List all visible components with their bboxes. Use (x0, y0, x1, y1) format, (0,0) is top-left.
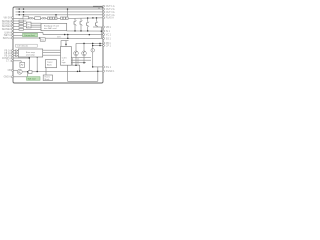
svg-text:IMON A: IMON A (3, 37, 12, 40)
svg-text:OUT 1 A: OUT 1 A (106, 5, 115, 8)
svg-text:FB 2A: FB 2A (4, 52, 11, 55)
svg-text:OUT 4 A: OUT 4 A (106, 14, 115, 17)
svg-text:Current limit: Current limit (24, 34, 35, 37)
svg-text:PG 1: PG 1 (106, 67, 112, 69)
svg-text:PGND 1: PGND 1 (106, 71, 115, 73)
svg-text:CB: CB (8, 70, 12, 72)
svg-text:IS 1: IS 1 (106, 31, 111, 33)
svg-text:Blank: Blank (47, 65, 52, 67)
svg-text:SENSE4: SENSE4 (2, 29, 12, 31)
svg-text:Shtdn: Shtdn (44, 78, 49, 81)
svg-text:and comp: and comp (26, 54, 36, 56)
svg-text:COMP A: COMP A (2, 57, 11, 60)
svg-text:ISET A: ISET A (4, 34, 12, 37)
svg-text:SS 1: SS 1 (106, 38, 112, 40)
svg-text:1 of 5 blocks: 1 of 5 blocks (17, 46, 28, 48)
svg-text:logic: logic (62, 62, 66, 64)
svg-text:CT 1: CT 1 (6, 61, 12, 63)
svg-text:trim DAC cntrl: trim DAC cntrl (44, 27, 57, 30)
svg-text:FLAG A: FLAG A (106, 17, 115, 20)
svg-text:VC 1: VC 1 (106, 35, 112, 37)
svg-text:SENSE1: SENSE1 (2, 21, 12, 23)
svg-text:OUT 2 A: OUT 2 A (106, 8, 115, 11)
svg-text:OUT 3 A: OUT 3 A (106, 11, 115, 14)
svg-text:Soft start: Soft start (28, 77, 36, 80)
svg-text:CP 1: CP 1 (106, 45, 112, 47)
svg-text:VB 1: VB 1 (106, 27, 112, 29)
svg-text:GND A: GND A (4, 76, 12, 79)
svg-text:VIN 5V: VIN 5V (4, 18, 12, 20)
svg-text:SENSE3: SENSE3 (2, 26, 12, 28)
svg-text:ILIM A: ILIM A (4, 31, 11, 34)
